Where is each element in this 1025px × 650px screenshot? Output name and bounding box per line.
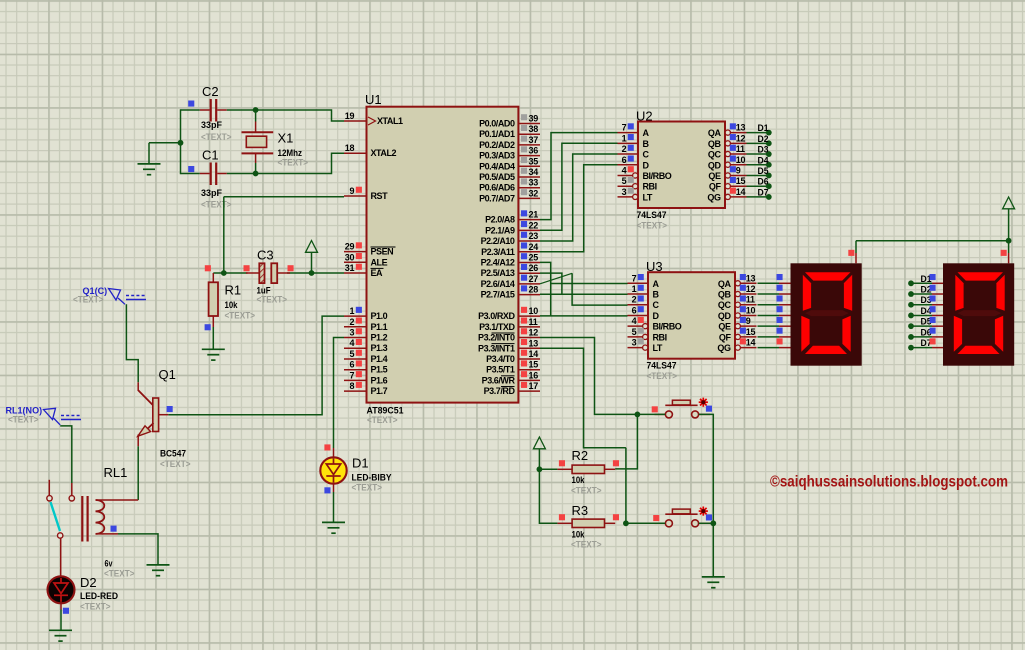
wire P2.7 to U3 B row — [540, 293, 628, 295]
svg-text:QD: QD — [718, 311, 732, 321]
svg-text:23: 23 — [529, 231, 539, 241]
node D5 DISP2 side — [908, 317, 932, 329]
wire P3.3 down — [540, 348, 626, 448]
svg-text:<TEXT>: <TEXT> — [201, 200, 232, 211]
U1 pin 36 P0.3/AD3 — [479, 146, 540, 161]
U3 pin 12 QB — [718, 284, 757, 300]
svg-text:RBI: RBI — [643, 182, 657, 192]
svg-text:33pF: 33pF — [201, 188, 222, 199]
svg-text:11: 11 — [529, 317, 538, 327]
svg-text:P0.6/AD6: P0.6/AD6 — [479, 183, 515, 193]
wire net RST — [224, 197, 344, 273]
svg-text:35: 35 — [529, 156, 539, 166]
junction C1-X1 — [253, 171, 259, 177]
svg-text:<TEXT>: <TEXT> — [571, 540, 602, 551]
node D4 DISP2 side — [908, 306, 932, 318]
wire U3 QA to DISP1 — [758, 282, 780, 284]
U1 pin 2 P1.1 — [344, 317, 388, 332]
U1 pin 38 P0.1/AD1 — [479, 124, 540, 139]
wire U2 QA to node D1 — [747, 132, 769, 134]
svg-text:10: 10 — [736, 155, 746, 165]
svg-text:©saiqhussainsolutions.blogspot: ©saiqhussainsolutions.blogspot.com — [770, 474, 1008, 491]
svg-text:C1: C1 — [202, 148, 219, 163]
U1 pin 39 P0.0/AD0 — [479, 114, 540, 129]
svg-text:12: 12 — [746, 284, 756, 294]
junction SW2-ground — [710, 520, 716, 526]
svg-text:C3: C3 — [257, 248, 274, 263]
wire SW2 to ground — [712, 523, 714, 577]
U1 pin 4 P1.3 — [344, 338, 388, 353]
svg-text:<TEXT>: <TEXT> — [367, 415, 398, 426]
svg-text:P1.3: P1.3 — [371, 343, 388, 353]
wire P2.4 down — [540, 262, 551, 316]
svg-text:QB: QB — [708, 139, 722, 149]
junction C2-X1 — [253, 107, 259, 113]
svg-text:8: 8 — [349, 381, 354, 391]
U1 pin 9 RST — [344, 186, 388, 201]
svg-text:BC547: BC547 — [160, 449, 186, 460]
svg-text:QA: QA — [718, 279, 732, 289]
svg-text:19: 19 — [345, 111, 355, 121]
svg-text:6: 6 — [349, 360, 354, 370]
svg-text:P1.2: P1.2 — [371, 333, 388, 343]
svg-text:U3: U3 — [646, 259, 663, 274]
svg-text:38: 38 — [529, 124, 539, 134]
U1 pin 10 P3.0/RXD — [478, 306, 540, 321]
node D1 DISP2 side — [908, 274, 932, 286]
svg-text:LT: LT — [643, 192, 653, 202]
wire U2 QE to node D5 — [747, 174, 769, 176]
svg-text:EA: EA — [371, 268, 384, 278]
svg-text:1: 1 — [632, 284, 637, 294]
U1 pin 13 P3.3/INT1 — [478, 338, 540, 353]
svg-text:P2.7/A15: P2.7/A15 — [481, 290, 515, 300]
svg-text:P3.3/INT1: P3.3/INT1 — [478, 343, 515, 353]
junction C3-power — [309, 270, 315, 276]
U1 pin 32 P0.7/AD7 — [479, 188, 540, 203]
svg-text:5: 5 — [632, 327, 637, 337]
svg-text:12: 12 — [529, 328, 539, 338]
U2 pin 11 QC — [708, 144, 747, 160]
svg-text:B: B — [653, 290, 660, 300]
svg-text:D: D — [653, 311, 660, 321]
U1 pin 25 P2.4/A12 — [481, 252, 540, 267]
svg-text:D6: D6 — [758, 177, 769, 187]
U1 pin 31 EA — [344, 263, 384, 278]
svg-text:<TEXT>: <TEXT> — [201, 132, 232, 143]
U2 pin 6 D — [618, 155, 650, 171]
capacitor C2 — [188, 99, 227, 122]
U1 pin 27 P2.6/A14 — [481, 274, 540, 289]
svg-text:29: 29 — [345, 242, 355, 252]
svg-text:<TEXT>: <TEXT> — [225, 311, 256, 322]
wire DISP1 common to power rail — [855, 241, 857, 253]
relay RL1 contact — [47, 480, 75, 577]
ground (buttons) — [702, 577, 725, 588]
wire P3.2 to SW1 — [540, 338, 637, 415]
svg-text:74LS47: 74LS47 — [647, 361, 677, 372]
wire U3 QG to DISP1 — [758, 347, 780, 349]
DISP2 pin D1 — [930, 274, 944, 283]
wire U3 QE to DISP1 — [758, 325, 780, 327]
svg-text:<TEXT>: <TEXT> — [104, 569, 135, 580]
capacitor C1 — [188, 163, 227, 186]
ground (R1) — [202, 349, 225, 360]
node D6 U2 side — [758, 177, 772, 189]
wire power to R2/R3 — [539, 449, 557, 524]
svg-text:18: 18 — [345, 143, 355, 153]
svg-text:3: 3 — [622, 187, 627, 197]
DISP2 pin D7 — [930, 338, 944, 347]
wire relay coil to ground — [118, 534, 158, 565]
U3 pin 4 BI/RBO — [628, 316, 682, 332]
U1 pin 19 XTAL1 — [344, 111, 403, 126]
svg-text:U1: U1 — [365, 92, 382, 107]
svg-text:22: 22 — [529, 220, 539, 230]
svg-text:16: 16 — [529, 370, 539, 380]
svg-text:P3.0/RXD: P3.0/RXD — [478, 311, 515, 321]
DISP1 pin D1 — [777, 274, 791, 283]
wire Q1 emitter to relay coil — [137, 446, 139, 500]
U1 pin 23 P2.2/A10 — [481, 231, 540, 246]
svg-text:<TEXT>: <TEXT> — [80, 602, 111, 613]
svg-text:C: C — [653, 300, 660, 310]
svg-text:10k: 10k — [572, 475, 586, 486]
svg-text:Q1: Q1 — [159, 367, 176, 382]
junction R3 node — [623, 520, 629, 526]
DISP2 pin D6 — [930, 328, 944, 337]
svg-text:P1.4: P1.4 — [371, 354, 388, 364]
svg-text:2: 2 — [622, 144, 627, 154]
DISP2 pin D2 — [930, 285, 944, 294]
DISP1 pin D4 — [777, 306, 791, 315]
svg-text:B: B — [643, 139, 650, 149]
wire R3 node vertical — [625, 448, 627, 524]
wire SW1 right to SW2 right — [699, 414, 714, 523]
U2 pin 5 RBI — [618, 176, 657, 192]
wire U3 QD to DISP1 — [758, 314, 780, 316]
U2 pin 9 QE — [708, 165, 746, 181]
U1 pin 6 P1.5 — [344, 360, 388, 375]
svg-text:39: 39 — [529, 114, 539, 124]
wire node to U3 A — [551, 283, 628, 285]
svg-text:RL1: RL1 — [104, 465, 128, 480]
wire P1.2 to D1 — [334, 338, 345, 449]
svg-text:10: 10 — [746, 305, 756, 315]
svg-text:QE: QE — [718, 322, 731, 332]
wire power arrow to DISP2 — [1008, 209, 1010, 253]
svg-text:25: 25 — [529, 252, 539, 262]
svg-text:P0.5/AD5: P0.5/AD5 — [479, 172, 515, 182]
svg-text:36: 36 — [529, 146, 539, 156]
wire U3 QF to DISP1 — [758, 336, 780, 338]
svg-text:D2: D2 — [758, 134, 769, 144]
U1 pin 3 P1.2 — [344, 328, 388, 343]
svg-text:7: 7 — [349, 370, 354, 380]
svg-text:33pF: 33pF — [201, 120, 222, 131]
svg-text:QF: QF — [719, 332, 732, 342]
U3 pin 9 QE — [718, 316, 756, 332]
svg-text:P0.3/AD3: P0.3/AD3 — [479, 151, 515, 161]
wire probe to Q1 collector — [126, 304, 138, 382]
ground (D2) — [49, 630, 72, 641]
U2 pin 3 LT — [618, 187, 653, 203]
wire R3 node to SW2 — [626, 522, 665, 524]
DISP1 pin D7 — [777, 338, 791, 347]
svg-text:XTAL2: XTAL2 — [371, 148, 397, 158]
U1 pin 7 P1.6 — [344, 370, 388, 385]
svg-text:D: D — [643, 160, 650, 170]
IC U2 74LS47 body — [638, 122, 725, 209]
U1 pin 15 P3.5/T1 — [486, 360, 540, 375]
7-segment display DISP2 — [943, 263, 1014, 365]
svg-text:R2: R2 — [572, 448, 589, 463]
svg-text:24: 24 — [529, 242, 539, 252]
wire D1 to ground — [333, 492, 335, 522]
wire P2.2 to U2 C — [540, 154, 618, 241]
U1 pin 12 P3.2/INT0 — [478, 328, 540, 343]
push button SW1 — [655, 398, 711, 418]
svg-text:D4: D4 — [758, 155, 769, 165]
DISP2 pin D4 — [930, 306, 944, 315]
svg-text:3: 3 — [632, 338, 637, 348]
U1 pin 24 P2.3/A11 — [481, 242, 540, 257]
svg-text:15: 15 — [736, 176, 746, 186]
wire U2 QG to node D7 — [747, 196, 769, 198]
U2 pin 1 B — [618, 133, 650, 149]
U1 pin 21 P2.0/A8 — [485, 210, 540, 225]
power arrow (R2) — [533, 437, 545, 449]
svg-text:XTAL1: XTAL1 — [377, 116, 403, 126]
IC U3 74LS47 body — [648, 272, 735, 359]
resistor R2 — [557, 460, 619, 473]
LED D2 — [48, 576, 75, 614]
DISP2 common pin — [1001, 250, 1009, 263]
wire U3 QC to DISP1 — [758, 304, 780, 306]
U2 pin 15 QF — [709, 176, 747, 192]
svg-text:1: 1 — [349, 306, 354, 316]
push button SW2 — [655, 507, 711, 527]
wire U2 QD to node D4 — [747, 164, 769, 166]
svg-text:D1: D1 — [758, 123, 769, 133]
U1 pin 34 P0.5/AD5 — [479, 167, 540, 182]
U3 pin 2 C — [628, 295, 660, 311]
DISP1 common pin — [848, 250, 856, 263]
svg-text:P2.0/A8: P2.0/A8 — [485, 215, 515, 225]
wire SW1 node branches — [615, 414, 665, 469]
svg-text:17: 17 — [529, 381, 539, 391]
svg-text:P1.0: P1.0 — [371, 311, 388, 321]
svg-text:21: 21 — [529, 210, 539, 220]
wire diagonal to U3 C — [572, 273, 627, 305]
U1 pin 26 P2.5/A13 — [481, 263, 540, 278]
U1 pin 17 P3.7/RD — [484, 381, 540, 396]
svg-text:7: 7 — [632, 273, 637, 283]
svg-text:BI/RBO: BI/RBO — [643, 171, 672, 181]
wire P2.0 to U2 A — [540, 133, 618, 220]
svg-text:15: 15 — [746, 327, 756, 337]
svg-text:74LS47: 74LS47 — [637, 210, 667, 221]
wire R1 to ground — [212, 327, 214, 349]
node D3 DISP2 side — [908, 295, 932, 307]
node D6 DISP2 side — [908, 327, 932, 339]
svg-text:LT: LT — [653, 343, 663, 353]
svg-text:QB: QB — [718, 290, 732, 300]
DISP2 pin D3 — [930, 295, 944, 304]
U3 pin 1 B — [628, 284, 660, 300]
svg-text:2: 2 — [632, 295, 637, 305]
LED D1 — [320, 444, 346, 493]
wire power rail displays — [856, 240, 1009, 242]
svg-text:33: 33 — [529, 178, 539, 188]
power arrow (displays) — [1003, 197, 1015, 209]
U3 pin 10 QD — [718, 305, 757, 321]
U3 pin 14 QG — [717, 338, 756, 354]
svg-text:P2.1/A9: P2.1/A9 — [485, 225, 515, 235]
svg-text:28: 28 — [529, 285, 539, 295]
svg-text:<TEXT>: <TEXT> — [352, 483, 383, 494]
wire net EA/C3/R1 — [213, 253, 344, 273]
svg-text:QA: QA — [708, 128, 722, 138]
U3 pin 6 D — [628, 305, 660, 321]
svg-text:PSEN: PSEN — [371, 247, 394, 257]
svg-text:R3: R3 — [572, 503, 589, 518]
svg-text:P1.6: P1.6 — [371, 375, 388, 385]
svg-text:P1.1: P1.1 — [371, 322, 388, 332]
svg-text:5: 5 — [349, 349, 354, 359]
U2 pin 14 QG — [707, 187, 746, 203]
svg-text:2: 2 — [349, 317, 354, 327]
svg-text:27: 27 — [529, 274, 539, 284]
svg-text:D7: D7 — [758, 187, 769, 197]
svg-text:4: 4 — [632, 316, 637, 326]
U1 pin 37 P0.2/AD2 — [479, 135, 540, 150]
svg-text:X1: X1 — [278, 131, 294, 146]
svg-text:<TEXT>: <TEXT> — [257, 295, 288, 306]
svg-text:ALE: ALE — [371, 257, 388, 267]
svg-text:P3.6/WR: P3.6/WR — [482, 375, 516, 385]
svg-text:QE: QE — [708, 171, 721, 181]
svg-text:P0.1/AD1: P0.1/AD1 — [479, 129, 515, 139]
U1 pin 16 P3.6/WR — [482, 370, 540, 385]
node D7 DISP2 side — [908, 338, 932, 350]
resistor R3 — [557, 514, 619, 527]
junction power rail — [1006, 238, 1012, 244]
svg-text:P1.5: P1.5 — [371, 365, 388, 375]
wire net XTAL1 (C2 row) — [181, 110, 345, 122]
svg-text:C2: C2 — [202, 84, 219, 99]
wire net XTAL2 (C1 row) — [181, 153, 345, 173]
junction power-R2 — [537, 466, 543, 472]
svg-text:P2.2/A10: P2.2/A10 — [481, 236, 515, 246]
svg-text:5: 5 — [622, 176, 627, 186]
U1 pin 29 PSEN — [344, 242, 396, 257]
DISP1 pin D5 — [777, 317, 791, 326]
svg-text:P3.2/INT0: P3.2/INT0 — [478, 333, 515, 343]
U1 pin 22 P2.1/A9 — [485, 220, 540, 235]
transistor Q1 — [138, 382, 173, 446]
svg-text:C: C — [643, 150, 650, 160]
U3 pin 5 RBI — [628, 327, 667, 343]
svg-text:12: 12 — [736, 133, 746, 143]
svg-text:QC: QC — [708, 150, 722, 160]
svg-text:9: 9 — [746, 316, 751, 326]
junction RST-R1 — [221, 270, 227, 276]
U1 pin 33 P0.6/AD6 — [479, 178, 540, 193]
wire D2 to ground — [60, 610, 62, 631]
svg-text:9: 9 — [736, 165, 741, 175]
U1 pin 14 P3.4/T0 — [486, 349, 540, 364]
U2 pin 12 QB — [708, 133, 747, 149]
U1 clock mark XTAL1 — [368, 117, 376, 125]
wire probe to relay contact — [60, 426, 72, 483]
U3 pin 11 QC — [718, 295, 757, 311]
svg-text:10: 10 — [529, 306, 539, 316]
svg-text:<TEXT>: <TEXT> — [8, 415, 39, 426]
svg-text:QG: QG — [717, 343, 731, 353]
svg-text:11: 11 — [736, 144, 745, 154]
svg-text:P0.7/AD7: P0.7/AD7 — [479, 193, 515, 203]
svg-text:D5: D5 — [758, 166, 769, 176]
svg-text:<TEXT>: <TEXT> — [278, 158, 309, 169]
DISP1 pin D6 — [777, 328, 791, 337]
U1 pin 11 P3.1/TXD — [479, 317, 540, 332]
DISP1 pin D3 — [777, 295, 791, 304]
voltage probe RL1(NO) — [44, 408, 82, 425]
resistor R1 — [205, 265, 218, 330]
voltage probe Q1(C) — [109, 289, 147, 305]
wire U3 QB to DISP1 — [758, 293, 780, 295]
svg-text:QC: QC — [718, 300, 732, 310]
svg-text:RBI: RBI — [653, 332, 667, 342]
svg-text:QF: QF — [709, 182, 722, 192]
IC U1 AT89C51 body — [367, 107, 519, 403]
svg-text:13: 13 — [529, 338, 539, 348]
svg-text:P0.2/AD2: P0.2/AD2 — [479, 140, 515, 150]
svg-text:P3.5/T1: P3.5/T1 — [486, 365, 515, 375]
svg-text:P1.7: P1.7 — [371, 386, 388, 396]
node D5 U2 side — [758, 166, 772, 178]
wire U2 QC to node D3 — [747, 153, 769, 155]
svg-text:QG: QG — [707, 192, 721, 202]
svg-text:P2.6/A14: P2.6/A14 — [481, 279, 515, 289]
svg-text:P3.1/TXD: P3.1/TXD — [479, 322, 515, 332]
U1 pin 1 P1.0 — [344, 306, 388, 321]
svg-text:U2: U2 — [636, 109, 653, 124]
svg-text:3: 3 — [349, 328, 354, 338]
svg-text:<TEXT>: <TEXT> — [637, 221, 668, 232]
svg-text:BI/RBO: BI/RBO — [653, 322, 682, 332]
svg-text:11: 11 — [746, 295, 755, 305]
node D2 DISP2 side — [908, 285, 932, 297]
svg-text:4: 4 — [622, 165, 627, 175]
wire P2.6 diagonal — [540, 273, 572, 284]
U3 pin 3 LT — [628, 338, 663, 354]
svg-text:P2.3/A11: P2.3/A11 — [481, 247, 515, 257]
svg-text:6: 6 — [622, 155, 627, 165]
svg-text:34: 34 — [529, 167, 539, 177]
svg-text:P3.7/RD: P3.7/RD — [484, 386, 516, 396]
wire U2 QB to node D2 — [747, 142, 769, 144]
svg-text:P2.4/A12: P2.4/A12 — [481, 257, 515, 267]
svg-text:14: 14 — [746, 338, 756, 348]
svg-text:9: 9 — [349, 186, 354, 196]
svg-text:37: 37 — [529, 135, 539, 145]
svg-text:D1: D1 — [352, 456, 369, 471]
wire P2.3 to U2 D — [540, 165, 618, 252]
svg-text:13: 13 — [746, 273, 756, 283]
svg-text:A: A — [653, 279, 660, 289]
